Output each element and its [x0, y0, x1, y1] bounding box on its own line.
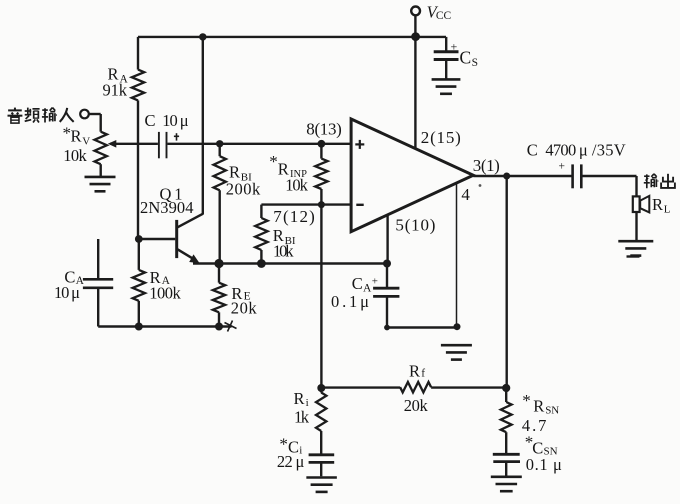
svg-text:S: S [472, 57, 478, 69]
svg-text:L: L [664, 203, 671, 215]
svg-text:f: f [421, 368, 425, 380]
svg-text:22 μ: 22 μ [277, 452, 305, 471]
svg-text:R: R [294, 389, 305, 408]
svg-text:20k: 20k [404, 396, 429, 415]
svg-text:R: R [533, 397, 544, 416]
svg-text:CC: CC [436, 10, 452, 22]
svg-text:+: + [559, 160, 566, 172]
svg-text:4: 4 [461, 185, 470, 204]
svg-text:10k: 10k [273, 242, 294, 261]
svg-text:+: + [372, 275, 378, 287]
svg-text:C: C [352, 274, 363, 293]
svg-text:C: C [527, 141, 538, 160]
svg-text:10 μ: 10 μ [54, 283, 80, 302]
svg-text:10k: 10k [285, 175, 308, 194]
svg-text:R: R [652, 195, 663, 214]
svg-text:C: C [145, 111, 156, 130]
svg-text:C: C [460, 48, 472, 68]
svg-text:*: * [269, 152, 278, 171]
svg-text:R: R [71, 127, 82, 146]
svg-text:2N3904: 2N3904 [140, 198, 194, 217]
svg-text:8(13): 8(13) [306, 120, 342, 139]
svg-text:SN: SN [545, 404, 559, 416]
svg-text:0.1μ: 0.1μ [331, 292, 370, 311]
svg-text:4700 μ: 4700 μ [545, 141, 587, 160]
svg-text:*: * [279, 434, 288, 453]
svg-text:*: * [522, 391, 531, 410]
svg-text:10k: 10k [63, 146, 87, 165]
svg-text:7(12): 7(12) [273, 207, 315, 226]
svg-text:5(10): 5(10) [395, 215, 435, 234]
svg-text:200k: 200k [226, 179, 261, 198]
svg-text:0.1 μ: 0.1 μ [526, 455, 562, 474]
svg-text:R: R [409, 361, 420, 380]
svg-text:10 μ: 10 μ [162, 111, 188, 130]
svg-text:/35V: /35V [592, 141, 626, 160]
svg-text:+: + [451, 40, 458, 54]
svg-text:3(1): 3(1) [473, 156, 500, 175]
svg-text:20k: 20k [231, 298, 258, 317]
svg-text:2(15): 2(15) [421, 128, 461, 147]
svg-text:1k: 1k [294, 407, 310, 426]
svg-text:100k: 100k [149, 283, 181, 302]
svg-text:91k: 91k [103, 81, 128, 100]
